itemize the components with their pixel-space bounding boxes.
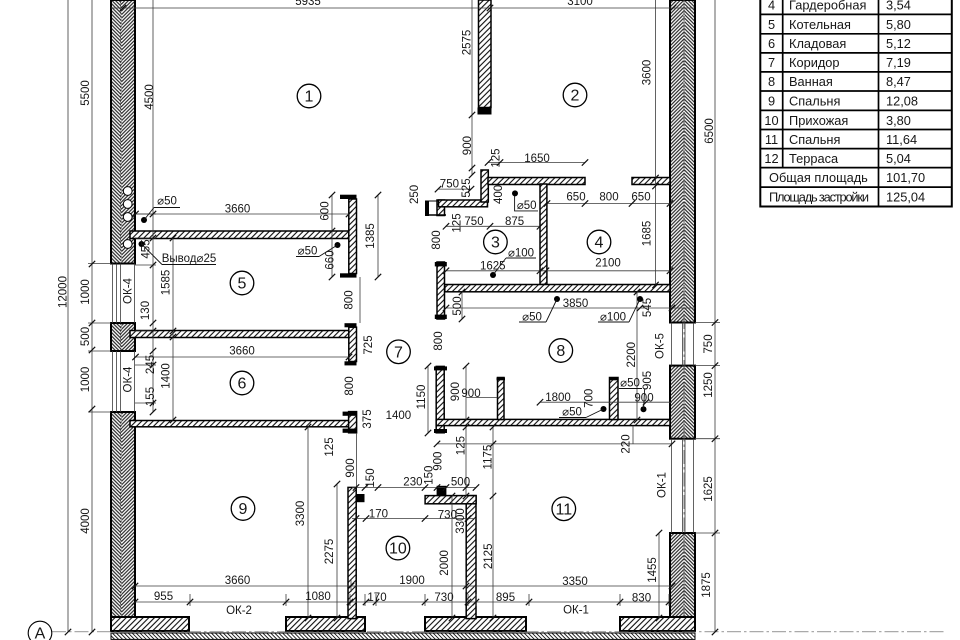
svg-text:3660: 3660	[225, 204, 251, 216]
svg-text:⌀50: ⌀50	[522, 312, 542, 324]
svg-text:700: 700	[584, 389, 596, 408]
dim line 900 r9-10	[356, 433, 358, 487]
dim line 1385	[377, 195, 379, 277]
svg-text:545: 545	[642, 298, 654, 317]
svg-text:⌀50: ⌀50	[620, 378, 640, 390]
wall between room 6 and room 9	[130, 421, 352, 427]
svg-text:⌀100: ⌀100	[508, 247, 534, 259]
dim line 1625/2100	[446, 270, 670, 272]
svg-text:125,04: 125,04	[886, 190, 925, 205]
svg-text:ОК-5: ОК-5	[655, 333, 667, 359]
outer wall right, upper segment	[670, 0, 695, 323]
svg-text:1455: 1455	[647, 557, 659, 583]
svg-text:750: 750	[464, 216, 483, 228]
svg-text:1685: 1685	[642, 221, 654, 247]
right wall axis line	[683, 0, 685, 636]
svg-text:525: 525	[461, 178, 473, 197]
svg-text:800: 800	[599, 192, 618, 204]
stub wall in room 8 (right)	[610, 378, 619, 420]
svg-text:4500: 4500	[144, 84, 156, 110]
extension lines left chain	[135, 213, 156, 215]
svg-text:6500: 6500	[704, 118, 716, 144]
dim line 4500 chain	[152, 0, 154, 412]
wall between room 1 and room 2	[479, 0, 492, 108]
svg-text:Котельная: Котельная	[789, 17, 851, 32]
bottom foundation course	[111, 633, 695, 639]
window OK-1 right glazing	[672, 439, 694, 533]
svg-text:101,70: 101,70	[886, 170, 925, 185]
spine A bottom cap	[340, 273, 357, 277]
wall south of rooms 3/4	[445, 285, 670, 292]
svg-text:875: 875	[505, 216, 524, 228]
dim line 3660 room1	[136, 213, 350, 215]
top dim line	[111, 7, 694, 9]
svg-text:730: 730	[434, 592, 453, 604]
pier at NW corner of room 3	[481, 170, 488, 202]
svg-text:8: 8	[556, 343, 565, 360]
window OK-5 glazing	[672, 323, 694, 366]
svg-text:1625: 1625	[703, 476, 715, 502]
dim line 3300 room9	[307, 427, 309, 618]
svg-text:3300: 3300	[455, 508, 467, 534]
dim line 1175-2125	[492, 427, 494, 618]
svg-text:1175: 1175	[482, 445, 494, 470]
svg-text:9: 9	[239, 501, 248, 518]
svg-text:500: 500	[451, 477, 470, 489]
wall between room 1 and room 5	[130, 231, 349, 239]
svg-text:1900: 1900	[399, 575, 425, 587]
svg-text:5,80: 5,80	[886, 17, 911, 32]
dim line bottom chain	[135, 601, 672, 603]
svg-text:900: 900	[461, 388, 480, 400]
room circle 9	[231, 497, 255, 521]
stub wall in room 8 (left)	[498, 378, 505, 420]
spine B bottom cap	[345, 361, 357, 365]
svg-text:1080: 1080	[305, 591, 331, 603]
svg-text:6: 6	[238, 376, 247, 393]
dim line 1650	[488, 162, 585, 164]
room circle 7	[387, 340, 411, 364]
svg-text:3100: 3100	[567, 0, 593, 8]
window OK-4 upper glazing	[113, 264, 135, 324]
wall between room 3 and room 4	[540, 184, 547, 285]
corridor spine segment (rooms 5/7)	[437, 262, 445, 319]
bottom axis line (A)	[52, 631, 944, 633]
svg-text:650: 650	[631, 192, 650, 204]
svg-text:125: 125	[451, 213, 463, 232]
dim line 750-875	[446, 225, 540, 227]
svg-text:245: 245	[145, 355, 157, 374]
svg-text:725: 725	[363, 335, 375, 354]
svg-text:800: 800	[344, 376, 356, 395]
svg-text:900: 900	[634, 392, 653, 404]
room circle 8	[549, 339, 573, 363]
corridor spine cap top	[435, 262, 447, 266]
svg-text:1150: 1150	[416, 385, 428, 410]
dim line 1585-1400	[172, 238, 174, 420]
svg-text:⌀50: ⌀50	[562, 407, 582, 419]
svg-text:А: А	[35, 626, 46, 640]
axis circle A	[28, 621, 52, 640]
svg-text:Спальня: Спальня	[789, 94, 840, 109]
svg-text:Спальня: Спальня	[789, 132, 840, 147]
wall stub top of room 10	[425, 496, 476, 504]
extension lines bottom chain	[189, 594, 191, 606]
svg-text:220: 220	[621, 434, 633, 453]
block above room 10 stub	[437, 486, 447, 496]
wall between room 10 and room 11	[466, 496, 476, 619]
svg-text:Вывод⌀25: Вывод⌀25	[162, 253, 217, 265]
svg-text:6: 6	[768, 36, 775, 51]
svg-text:1800: 1800	[545, 392, 571, 404]
outer wall bottom, segment left of OK-2	[111, 617, 189, 631]
svg-text:3660: 3660	[225, 575, 251, 587]
svg-text:1585: 1585	[161, 270, 173, 296]
extension lines right wall	[695, 322, 720, 324]
svg-text:1: 1	[305, 89, 314, 106]
svg-text:5935: 5935	[295, 0, 321, 8]
svg-text:150: 150	[365, 468, 377, 487]
svg-text:125: 125	[491, 148, 503, 167]
dim line 3300 room11	[465, 427, 467, 496]
svg-text:830: 830	[632, 592, 651, 604]
dim line 170-730 upper	[352, 518, 476, 520]
wall between room 9 and room 10	[348, 487, 356, 618]
svg-text:895: 895	[496, 592, 515, 604]
svg-text:3660: 3660	[229, 346, 255, 358]
spine wall segment B	[349, 327, 357, 361]
svg-text:170: 170	[369, 509, 388, 521]
svg-text:170: 170	[367, 592, 386, 604]
svg-text:3350: 3350	[562, 576, 588, 588]
svg-text:1000: 1000	[80, 367, 92, 393]
svg-text:3,54: 3,54	[886, 0, 911, 13]
svg-text:12: 12	[764, 151, 778, 166]
svg-text:750: 750	[703, 334, 715, 353]
svg-text:11,64: 11,64	[886, 132, 917, 147]
vent circles on left wall	[123, 187, 132, 196]
svg-text:1875: 1875	[701, 572, 713, 598]
outer wall left, lower segment	[111, 412, 135, 631]
outer wall right, pier between OK-5 and OK-1	[670, 366, 695, 439]
svg-text:10: 10	[389, 541, 407, 558]
svg-text:1250: 1250	[703, 372, 715, 398]
svg-text:2200: 2200	[626, 342, 638, 368]
svg-text:900: 900	[462, 136, 474, 155]
svg-text:1625: 1625	[480, 261, 506, 273]
corridor spine end block	[437, 200, 445, 216]
svg-text:5: 5	[238, 276, 247, 293]
svg-text:Площадь застройки: Площадь застройки	[769, 190, 869, 205]
sanitary point leaders	[141, 217, 147, 223]
extension lines left windows	[88, 263, 111, 265]
outer wall bottom, right segment	[620, 617, 695, 631]
svg-text:1385: 1385	[365, 223, 377, 249]
svg-text:125: 125	[455, 436, 467, 455]
outer wall bottom, segment between door and OK-1	[425, 617, 526, 631]
svg-text:Общая площадь: Общая площадь	[769, 170, 868, 185]
dim line 12000	[67, 0, 69, 632]
svg-text:ОК-2: ОК-2	[226, 605, 252, 617]
svg-text:800: 800	[431, 230, 443, 249]
svg-text:Кладовая: Кладовая	[789, 36, 846, 51]
svg-text:660: 660	[325, 250, 337, 269]
svg-text:3600: 3600	[642, 60, 654, 86]
svg-text:3850: 3850	[563, 298, 589, 310]
svg-text:7: 7	[394, 344, 403, 361]
dim line 1455	[658, 533, 660, 618]
dim line 3850-545	[446, 307, 695, 309]
dim line 230-500	[352, 487, 476, 489]
dim line 220	[632, 426, 634, 444]
svg-text:4: 4	[595, 235, 604, 252]
room circle 2	[563, 83, 587, 107]
svg-text:800: 800	[433, 331, 445, 350]
dimension ticks	[65, 5, 718, 635]
dim line 3600/1685	[655, 0, 657, 285]
spine A top cap	[340, 195, 357, 199]
wall north of rooms 3/4, right part	[632, 178, 670, 185]
outer wall left, upper segment	[111, 0, 135, 264]
svg-text:800: 800	[344, 290, 356, 309]
svg-text:1650: 1650	[524, 153, 550, 165]
window OK-4 lower glazing	[113, 351, 135, 412]
svg-text:250: 250	[409, 185, 421, 204]
svg-text:155: 155	[145, 387, 157, 406]
svg-text:2125: 2125	[483, 544, 495, 570]
dim line 2200	[636, 292, 638, 420]
svg-text:650: 650	[566, 192, 585, 204]
room circle 4	[587, 230, 611, 254]
svg-text:125: 125	[324, 437, 336, 456]
svg-text:Коридор: Коридор	[789, 55, 840, 70]
svg-text:8,47: 8,47	[886, 74, 911, 89]
svg-text:2000: 2000	[439, 550, 451, 576]
dim line 600-660	[331, 195, 333, 277]
svg-text:ОК-4: ОК-4	[123, 366, 135, 392]
room circle 6	[230, 371, 254, 395]
room circle 3	[484, 230, 508, 254]
svg-text:230: 230	[403, 477, 422, 489]
svg-text:400: 400	[493, 185, 505, 204]
svg-text:2: 2	[571, 88, 580, 105]
svg-text:7,19: 7,19	[886, 55, 911, 70]
svg-text:750: 750	[440, 179, 459, 191]
dim line 3660-1900-3350	[135, 585, 672, 587]
svg-text:Прихожая: Прихожая	[789, 113, 848, 128]
svg-text:⌀50: ⌀50	[517, 200, 537, 212]
spine B top cap	[345, 323, 357, 327]
svg-text:900: 900	[345, 458, 357, 477]
svg-text:10: 10	[764, 113, 778, 128]
svg-text:1000: 1000	[80, 279, 92, 305]
svg-text:900: 900	[432, 452, 444, 471]
svg-text:⌀50: ⌀50	[298, 246, 318, 258]
corridor spine cap 2 bottom	[434, 429, 447, 433]
wall 9-10 top foot	[356, 494, 364, 502]
svg-text:Гардеробная: Гардеробная	[789, 0, 866, 13]
svg-text:7: 7	[768, 55, 775, 70]
dim line left chain	[91, 0, 93, 632]
svg-text:4: 4	[768, 0, 775, 13]
dim line 750 upper	[438, 188, 471, 190]
stub right cap	[609, 378, 619, 381]
svg-text:955: 955	[154, 591, 173, 603]
spine wall segment A (right of rooms 1,5)	[349, 199, 357, 274]
wall 1-2 end cap	[478, 108, 492, 115]
dim line 900 room8w	[465, 366, 467, 420]
svg-text:11: 11	[765, 132, 778, 147]
dim line 220 chain	[437, 443, 672, 445]
outer wall bottom, segment between OK-2 and door	[286, 617, 365, 631]
svg-text:1400: 1400	[161, 363, 173, 389]
corridor spine segment (rooms 7/8)	[436, 366, 444, 432]
spine wall segment C	[349, 412, 357, 433]
outer wall left, pier between windows	[111, 323, 135, 351]
svg-text:500: 500	[80, 327, 92, 346]
corridor spine cap bottom	[435, 315, 447, 319]
dim line 900 room7	[466, 397, 498, 399]
dim line 3660 room6	[136, 356, 350, 358]
svg-text:12000: 12000	[58, 276, 70, 308]
svg-text:5,04: 5,04	[886, 151, 911, 166]
svg-text:12,08: 12,08	[886, 94, 918, 109]
dim line 1800-900	[540, 401, 672, 403]
spine C bottom cap	[343, 429, 357, 433]
stub left cap	[497, 378, 506, 381]
svg-text:130: 130	[140, 301, 152, 320]
svg-text:ОК-1: ОК-1	[563, 605, 589, 617]
dim line 2000	[451, 496, 453, 618]
wall north of rooms 3/4, left part	[488, 178, 585, 185]
svg-text:ОК-1: ОК-1	[657, 472, 669, 498]
area table	[760, 0, 952, 207]
svg-text:⌀50: ⌀50	[157, 196, 177, 208]
corridor spine cap 2 top	[434, 366, 447, 370]
svg-text:⌀100: ⌀100	[600, 311, 626, 323]
room circle 10	[386, 536, 410, 560]
svg-text:500: 500	[452, 296, 464, 315]
svg-text:3,80: 3,80	[886, 113, 911, 128]
dim line 800 r5	[359, 277, 361, 323]
svg-text:905: 905	[642, 371, 654, 390]
svg-text:600: 600	[320, 201, 332, 220]
dim line 650-800-650	[547, 203, 672, 205]
svg-text:375: 375	[362, 409, 374, 428]
svg-text:2575: 2575	[462, 30, 474, 56]
room circle 1	[297, 84, 321, 108]
svg-text:1400: 1400	[386, 410, 412, 422]
svg-text:900: 900	[450, 382, 462, 401]
dim line 2575-900	[471, 0, 473, 175]
svg-text:Ванная: Ванная	[789, 74, 833, 89]
svg-text:2275: 2275	[324, 539, 336, 565]
svg-text:8: 8	[768, 74, 775, 89]
svg-text:Терраса: Терраса	[789, 151, 839, 166]
svg-text:3300: 3300	[295, 501, 307, 527]
room circle 11	[552, 497, 576, 521]
outer wall right, lower segment	[670, 533, 695, 631]
svg-text:455: 455	[141, 239, 153, 258]
svg-text:730: 730	[438, 510, 457, 522]
closet wall west end jamb	[425, 201, 446, 217]
svg-text:5500: 5500	[80, 80, 92, 106]
dim line 2275	[336, 484, 338, 618]
svg-text:3: 3	[491, 235, 500, 252]
svg-text:5,12: 5,12	[886, 36, 911, 51]
dim line 1150	[427, 366, 429, 433]
room circle 5	[230, 271, 254, 295]
svg-text:2100: 2100	[595, 258, 621, 270]
dim line right chain 6500	[714, 0, 716, 632]
closet wall west of room 3	[439, 200, 488, 207]
wall between room 5 and room 6	[130, 331, 349, 338]
svg-text:4000: 4000	[80, 508, 92, 534]
svg-text:5: 5	[768, 17, 775, 32]
svg-text:9: 9	[768, 94, 775, 109]
svg-text:11: 11	[555, 501, 572, 518]
spine C top cap	[343, 412, 357, 416]
wall south of room 8	[436, 419, 670, 425]
svg-text:ОК-4: ОК-4	[123, 277, 135, 303]
dim line 500 room8	[461, 292, 463, 319]
